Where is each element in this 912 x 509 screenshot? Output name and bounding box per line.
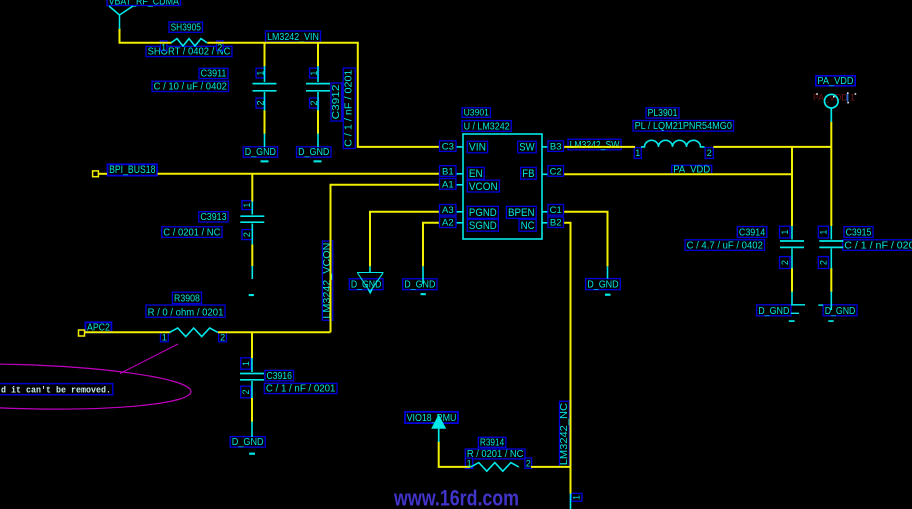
svg-text:2: 2 [242,232,252,237]
svg-text:1: 1 [309,71,319,76]
svg-text:LM3242_NC: LM3242_NC [559,403,570,465]
svg-text:C / 10 / uF / 0402: C / 10 / uF / 0402 [154,82,228,93]
svg-text:VBAT_RF_CDMA: VBAT_RF_CDMA [109,0,180,7]
svg-text:A2: A2 [442,218,454,229]
svg-text:C / 4.7 / uF / 0402: C / 4.7 / uF / 0402 [687,240,764,251]
svg-text:2: 2 [309,100,319,105]
svg-text:R3908: R3908 [174,294,200,305]
svg-text:VIO18_PMU: VIO18_PMU [407,413,457,424]
svg-text:2: 2 [780,260,790,265]
svg-text:PL / LQM21PNR54MG0: PL / LQM21PNR54MG0 [635,121,733,132]
svg-text:2: 2 [217,43,222,53]
svg-text:B3: B3 [550,142,562,153]
svg-text:1: 1 [635,148,640,158]
svg-text:PL3901: PL3901 [648,108,678,119]
svg-text:LM3242_VIN: LM3242_VIN [267,32,319,43]
svg-text:C3915: C3915 [846,227,872,238]
svg-text:2: 2 [707,148,712,158]
svg-text:C2: C2 [550,166,562,177]
svg-text:D_GND: D_GND [232,437,264,448]
svg-text:2: 2 [818,260,828,265]
svg-text:LM3242_SW: LM3242_SW [570,140,620,151]
svg-text:C3916: C3916 [267,371,293,382]
svg-text:2: 2 [526,458,531,468]
svg-text:BPI_BUS18: BPI_BUS18 [109,164,155,176]
svg-text:C / 1 / nF / 0201: C / 1 / nF / 0201 [266,384,336,395]
svg-text:1: 1 [162,332,167,342]
svg-text:U3901: U3901 [464,107,489,117]
svg-text:1: 1 [780,230,790,235]
svg-text:R / 0 / ohm / 0201: R / 0 / ohm / 0201 [148,307,224,318]
svg-text:VIN: VIN [469,142,486,154]
svg-text:1: 1 [572,495,582,500]
svg-text:B2: B2 [550,218,562,229]
svg-text:C / 1 / nF / 0201: C / 1 / nF / 0201 [344,69,355,147]
svg-text:B1: B1 [442,166,454,177]
svg-text:A3: A3 [442,205,454,216]
svg-text:C3: C3 [442,142,454,153]
svg-text:1: 1 [467,458,472,468]
svg-text:D_GND: D_GND [758,306,789,317]
svg-text:C1: C1 [550,205,562,216]
svg-text:PA_VDD: PA_VDD [817,76,853,87]
svg-text:BPEN: BPEN [508,207,535,219]
svg-text:A1: A1 [442,179,454,190]
svg-text:SGND: SGND [469,220,497,232]
svg-text:www.16rd.com: www.16rd.com [393,486,519,509]
svg-text:1: 1 [242,203,252,208]
svg-text:C3911: C3911 [201,69,227,80]
svg-text:D_GND: D_GND [245,147,276,158]
svg-text:C / 0201 / NC: C / 0201 / NC [163,227,220,238]
svg-text:PGND: PGND [469,207,497,219]
svg-text:R / 0201 / NC: R / 0201 / NC [467,449,524,460]
svg-text:C3913: C3913 [200,212,226,223]
svg-text:D_GND: D_GND [825,306,856,317]
svg-text:NC: NC [521,220,535,232]
svg-text:2: 2 [241,389,251,394]
svg-text:1: 1 [818,230,828,235]
svg-text:1: 1 [161,43,166,53]
svg-text:d it can't be removed.: d it can't be removed. [1,386,111,396]
svg-text:2: 2 [256,100,266,105]
svg-text:2: 2 [220,332,225,342]
svg-text:1: 1 [241,361,251,366]
svg-text:C / 1 / nF / 0201: C / 1 / nF / 0201 [844,240,912,251]
svg-text:1: 1 [256,71,266,76]
svg-text:R3914: R3914 [480,437,505,448]
svg-text:C3914: C3914 [739,227,766,238]
svg-text:EN: EN [469,168,483,180]
svg-text:D_GND: D_GND [298,147,329,158]
svg-text:U / LM3242: U / LM3242 [464,121,510,132]
svg-text:SW: SW [519,142,535,154]
svg-text:C3912: C3912 [331,84,342,119]
svg-text:SH3905: SH3905 [171,22,202,33]
svg-text:FB: FB [522,168,534,180]
svg-text:VCON: VCON [469,181,498,193]
svg-text:D_GND: D_GND [587,280,619,291]
svg-text:D_GND: D_GND [404,280,435,291]
